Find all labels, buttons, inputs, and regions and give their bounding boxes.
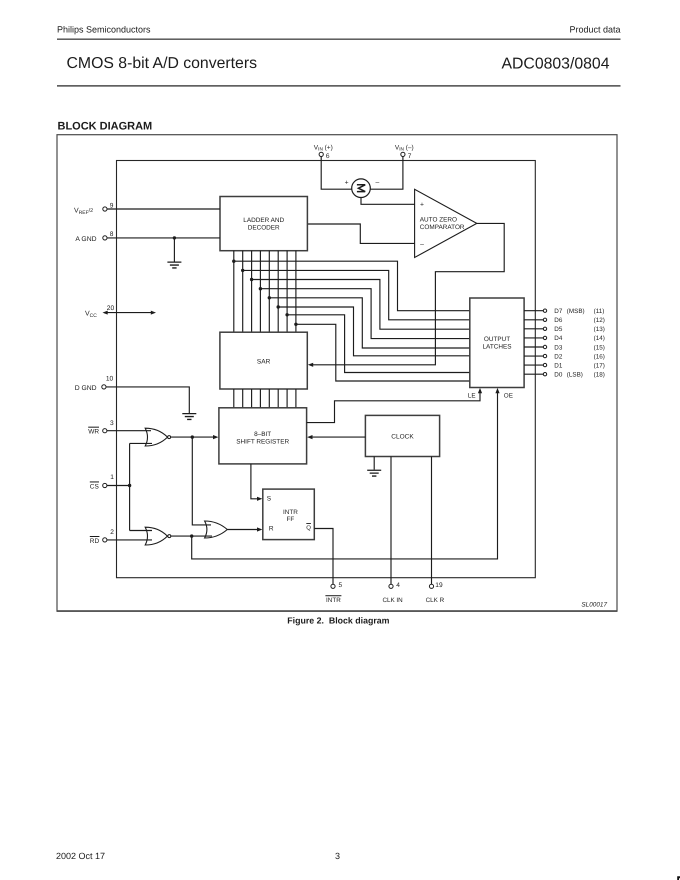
terminal pin 9 VREF/2 [103, 207, 107, 211]
svg-text:OE: OE [504, 392, 513, 399]
block U2 LADDER AND DECODER [220, 197, 307, 251]
terminal pin 6 VIN(+) [319, 152, 323, 156]
svg-text:(LSB): (LSB) [567, 372, 583, 379]
wire latch output D5 [524, 328, 543, 330]
ground symbol analog (A GND) [167, 262, 181, 269]
gate G2 output bubble [168, 535, 171, 538]
arrowhead R input into INTR FF [257, 527, 262, 531]
svg-text:CLK R: CLK R [426, 597, 445, 604]
svg-text:–: – [376, 180, 380, 187]
wire G1 output to shift register start input [171, 436, 214, 438]
junction dot RD gate output branch [190, 534, 193, 537]
svg-text:D1: D1 [554, 362, 563, 369]
arrowhead comparator feedback into SAR [308, 363, 313, 367]
svg-text:D7: D7 [554, 308, 563, 315]
junction dot bus tap 6 [277, 305, 280, 308]
svg-text:8–BIT: 8–BIT [254, 431, 271, 438]
svg-text:Figure 2. Block diagram: Figure 2. Block diagram [287, 615, 389, 625]
junction dot bus tap 2 [241, 269, 244, 272]
svg-text:D3: D3 [554, 344, 563, 351]
arrowhead S input into INTR FF [257, 497, 262, 501]
svg-text:5: 5 [339, 582, 343, 589]
wire CLK IN stem [390, 457, 392, 585]
terminal D6 [543, 318, 546, 321]
terminal pin 7 VIN(-) [401, 152, 405, 156]
svg-text:CLOCK: CLOCK [391, 433, 414, 440]
junction dot bus tap 8 [294, 323, 297, 326]
svg-text:R: R [269, 525, 274, 532]
block U6 CLOCK [365, 415, 439, 456]
title rule [57, 85, 621, 86]
wire latch output D0 [524, 373, 543, 375]
junction dot CS node [128, 484, 131, 487]
wire latch output D2 [524, 355, 543, 357]
summer M glyph (sigma rotated) [357, 185, 365, 192]
wire D GND lead and branch to digital ground [106, 387, 189, 413]
svg-text:+: + [420, 201, 424, 208]
svg-text:CMOS 8-bit A/D converters: CMOS 8-bit A/D converters [67, 55, 258, 72]
wire A GND to ladder [107, 237, 220, 239]
svg-text:–: – [420, 241, 424, 248]
svg-text:(13): (13) [594, 326, 605, 333]
wire comparator output feedback to SAR [312, 223, 505, 364]
svg-text:CS: CS [90, 483, 100, 490]
wire G1 branch down to reset gate [192, 437, 211, 525]
terminal pin 1 CS [103, 483, 107, 487]
svg-text:3: 3 [110, 420, 114, 427]
wire ladder tap 6 to latches input 6 [278, 307, 470, 356]
summing junction M circle [352, 179, 371, 198]
svg-text:Philips Semiconductors: Philips Semiconductors [57, 25, 151, 35]
svg-text:2002 Oct 17: 2002 Oct 17 [56, 851, 105, 861]
wire latch output D4 [524, 337, 543, 339]
gate G1 WR-CS nand (or shape with bubble) [145, 428, 167, 446]
svg-text:6: 6 [326, 153, 330, 160]
junction dot WR gate output branch [191, 435, 194, 438]
svg-text:(12): (12) [594, 317, 605, 324]
svg-text:COMPARATOR: COMPARATOR [420, 224, 465, 231]
wire shift register LE output to latches [307, 392, 480, 423]
terminal D7 [543, 309, 546, 312]
svg-text:(18): (18) [594, 372, 605, 379]
svg-text:D5: D5 [554, 326, 563, 333]
wire clock output to shift register [311, 436, 365, 438]
svg-text:VREF/2: VREF/2 [74, 208, 93, 216]
svg-text:LADDER AND: LADDER AND [243, 217, 284, 224]
svg-text:Product data: Product data [569, 25, 620, 35]
svg-text:3: 3 [335, 851, 340, 861]
figure frame bottom emphasis [57, 610, 617, 612]
block U3 SAR [220, 332, 307, 389]
terminal D3 [543, 345, 546, 348]
op-amp U1 auto zero comparator triangle [415, 189, 477, 257]
arrowhead clock output into shift register [307, 435, 312, 439]
svg-text:AUTO ZERO: AUTO ZERO [420, 217, 457, 224]
wire CS branch to RD gate upper input [130, 530, 152, 532]
wire A GND branch to analog ground [173, 238, 175, 262]
svg-text:LATCHES: LATCHES [482, 344, 511, 351]
svg-text:7: 7 [408, 153, 412, 160]
svg-text:(17): (17) [594, 362, 605, 369]
svg-text:4: 4 [396, 582, 400, 589]
gate G3 INTR reset or-gate [205, 521, 228, 538]
svg-text:WR: WR [88, 429, 99, 436]
svg-text:SAR: SAR [257, 358, 271, 365]
svg-text:D0: D0 [554, 372, 563, 379]
terminal D1 [543, 363, 546, 366]
svg-text:A GND: A GND [75, 236, 96, 243]
svg-text:RD: RD [90, 538, 100, 545]
svg-text:VIN (+): VIN (+) [314, 145, 333, 152]
wire CLK R stem [431, 457, 433, 585]
bus wire ladder to SAR line 3 [251, 251, 253, 333]
wire G3 output to INTR FF R input [227, 529, 259, 531]
wire CS branch to WR gate lower input [130, 442, 152, 444]
wire latch output D3 [524, 346, 543, 348]
svg-text:D6: D6 [554, 317, 563, 324]
svg-text:1: 1 [110, 474, 114, 481]
terminal pin 2 RD [103, 538, 107, 542]
wire clock ground stem [373, 457, 375, 470]
svg-text:LE: LE [468, 392, 476, 399]
bus wire ladder to SAR line 8 [295, 251, 297, 333]
wire WR lead to gate [107, 430, 151, 432]
svg-text:8: 8 [110, 231, 114, 238]
arrowhead OE into latches bottom [495, 388, 499, 393]
svg-text:+: + [345, 180, 349, 187]
bus wire ladder to SAR line 7 [286, 251, 288, 333]
svg-text:VIN (–): VIN (–) [395, 145, 414, 152]
junction dot bus tap 3 [250, 278, 253, 281]
svg-text:INTR: INTR [283, 509, 298, 516]
wire VIN(-) stem and lead to summer [370, 156, 403, 189]
svg-text:DECODER: DECODER [248, 224, 280, 231]
page corner registration mark [677, 876, 680, 880]
svg-text:D4: D4 [554, 335, 563, 342]
bus wire ladder to SAR line 6 [277, 251, 279, 333]
svg-text:VCC: VCC [85, 311, 97, 319]
terminal pin 5 INTR [331, 584, 335, 588]
junction dot bus tap 1 [232, 260, 235, 263]
svg-text:Q: Q [306, 524, 311, 531]
inner diagram boundary box [117, 161, 536, 578]
svg-text:9: 9 [110, 203, 114, 210]
svg-text:SL00017: SL00017 [581, 602, 607, 609]
svg-text:(MSB): (MSB) [567, 308, 585, 315]
terminal D4 [543, 336, 546, 339]
terminal D0 [543, 373, 546, 376]
svg-text:10: 10 [106, 376, 114, 383]
svg-text:BLOCK DIAGRAM: BLOCK DIAGRAM [58, 121, 153, 133]
arrowhead LE into latches bottom [478, 388, 482, 393]
block U4 8-BIT SHIFT REGISTER [219, 408, 307, 464]
wire G2 output to reset gate lower input [171, 535, 212, 537]
terminal D5 [543, 327, 546, 330]
svg-text:SHIFT REGISTER: SHIFT REGISTER [236, 439, 289, 446]
wire latch output D1 [524, 364, 543, 366]
gate G2 RD-CS nand (or shape with bubble) [145, 527, 167, 545]
terminal pin 8 A GND [103, 236, 107, 240]
svg-text:(15): (15) [594, 344, 605, 351]
svg-text:CLK IN: CLK IN [382, 597, 403, 604]
gate G1 output bubble [168, 436, 171, 439]
svg-text:19: 19 [435, 582, 443, 589]
wire CS vertical joining both gates [129, 443, 131, 530]
terminal D2 [543, 354, 546, 357]
wire VREF/2 to ladder [107, 208, 220, 210]
svg-text:OUTPUT: OUTPUT [484, 336, 510, 343]
arrowhead G1 output into shift register [213, 435, 218, 439]
terminal pin 4 CLK IN [389, 584, 393, 588]
wire ladder tap 5 to latches input 5 [269, 298, 470, 348]
arrowhead VCC left [103, 311, 108, 315]
arrowhead VCC right [151, 311, 156, 315]
svg-text:(14): (14) [594, 335, 605, 342]
wire ladder output to comparator - input [307, 224, 414, 243]
wire RD lead to gate lower input [107, 539, 152, 541]
bus wire ladder to SAR line 5 [268, 251, 270, 333]
bus wire ladder to SAR line 4 [259, 251, 261, 333]
header rule [57, 39, 621, 40]
wire VCC distribution arrow [104, 312, 154, 314]
ground symbol digital (D GND) [182, 413, 196, 420]
terminal pin 19 CLK R [429, 584, 433, 588]
wire ladder tap 2 to latches input 2 [243, 270, 470, 319]
block U5 OUTPUT LATCHES [470, 298, 524, 388]
bus wire ladder to SAR line 2 [242, 251, 244, 333]
svg-text:20: 20 [107, 305, 115, 312]
junction dot A GND ground tap [173, 236, 176, 239]
wire shift register to INTR FF S input [251, 464, 260, 499]
ground symbol clock [367, 470, 381, 477]
block U7 INTR FF [263, 489, 315, 539]
wire latch output D7 [524, 310, 543, 312]
wire latch output D6 [524, 319, 543, 321]
svg-text:FF: FF [286, 516, 294, 523]
svg-text:(16): (16) [594, 353, 605, 360]
wire ladder tap 7 to latches input 7 [287, 315, 470, 373]
wire VIN(+) stem and lead to summer [321, 156, 351, 189]
terminal pin 10 D GND [102, 385, 106, 389]
wire CS lead [107, 485, 130, 487]
svg-text:ADC0803/0804: ADC0803/0804 [501, 55, 609, 72]
terminal pin 3 WR [103, 429, 107, 433]
svg-text:INTR: INTR [326, 597, 341, 604]
wire ladder tap 8 to latches input 8 [296, 324, 470, 381]
bus wire ladder to SAR line 1 [233, 251, 235, 333]
junction dot bus tap 4 [259, 287, 262, 290]
svg-text:S: S [267, 496, 272, 503]
wire ladder tap 4 to latches input 4 [260, 289, 469, 339]
junction dot bus tap 7 [285, 313, 288, 316]
bus wire SAR to shift register lines [234, 389, 296, 408]
wire ladder tap 1 to latches input 1 [234, 261, 470, 311]
svg-text:D GND: D GND [75, 385, 97, 392]
wire INTR FF Q output to INTR terminal [314, 529, 333, 585]
wire ladder tap 3 to latches input 3 [252, 280, 470, 330]
wire summer output to comparator + input [361, 198, 415, 205]
svg-text:D2: D2 [554, 353, 563, 360]
junction dot bus tap 5 [268, 296, 271, 299]
svg-text:(11): (11) [594, 308, 605, 315]
svg-text:2: 2 [110, 529, 114, 536]
wire OE branch from G2 output to latches [192, 392, 498, 559]
figure frame [57, 135, 617, 612]
